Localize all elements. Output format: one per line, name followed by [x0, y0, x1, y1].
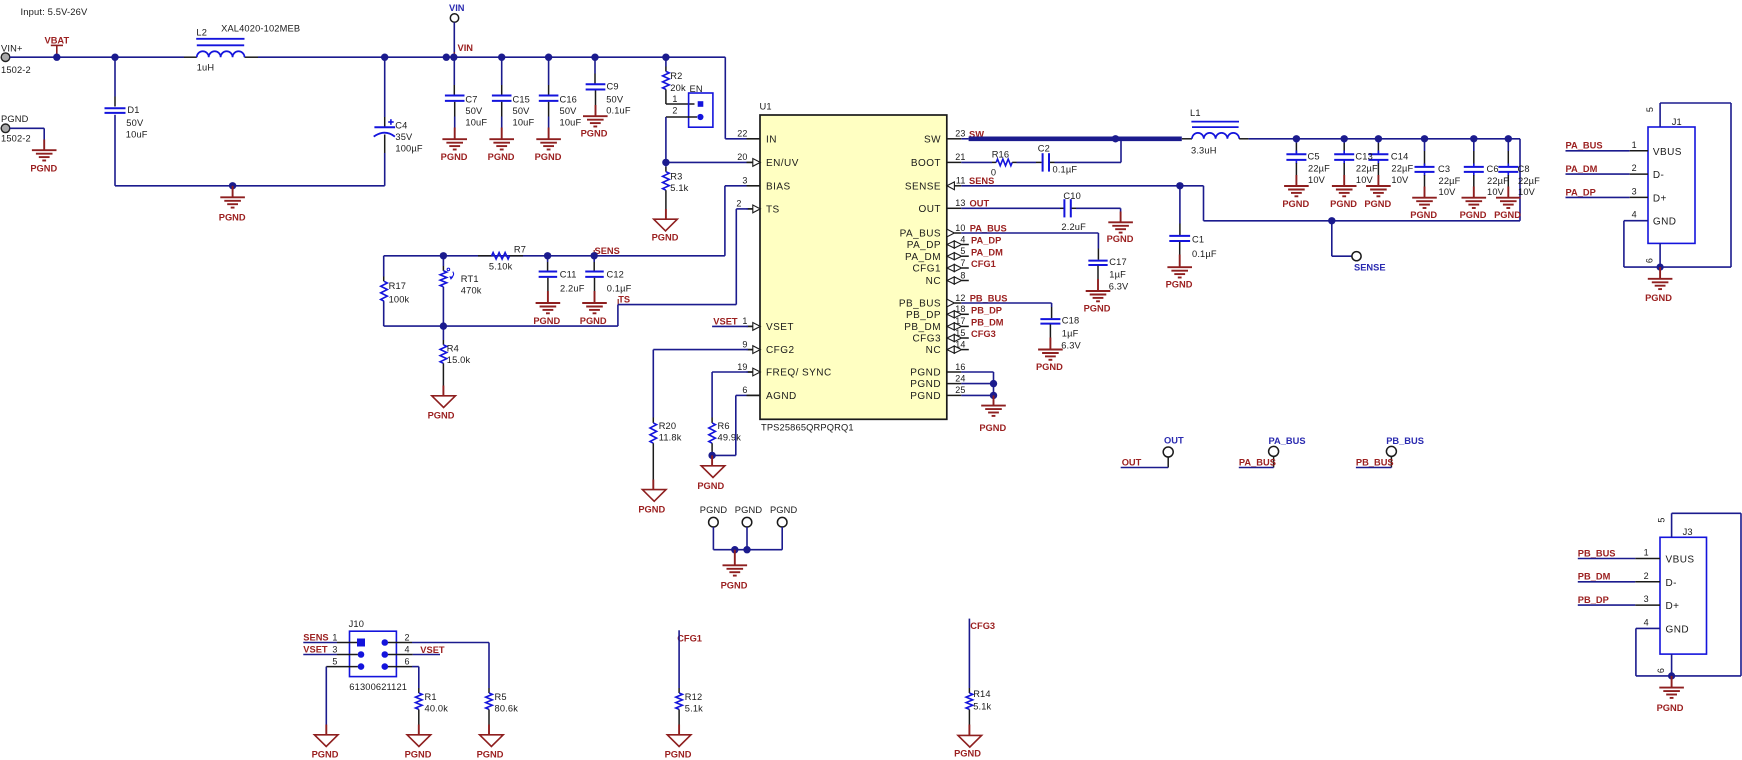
svg-text:6.3V: 6.3V	[1109, 281, 1129, 291]
junction J1 ground	[1657, 264, 1664, 271]
svg-text:CFG3: CFG3	[970, 621, 995, 631]
resistor R3 5.1k	[665, 162, 667, 166]
svg-text:4: 4	[1644, 617, 1649, 627]
svg-text:22µF: 22µF	[1518, 176, 1540, 186]
svg-text:RT1: RT1	[461, 274, 479, 284]
svg-text:J10: J10	[349, 619, 364, 629]
svg-text:6.3V: 6.3V	[1061, 340, 1081, 350]
svg-text:100k: 100k	[389, 295, 410, 305]
junction C5	[1293, 135, 1300, 142]
svg-text:VIN: VIN	[458, 43, 474, 53]
svg-text:PGND: PGND	[30, 164, 57, 174]
svg-text:C14: C14	[1391, 152, 1409, 162]
svg-text:R20: R20	[659, 421, 677, 431]
svg-text:PGND: PGND	[219, 213, 246, 223]
capacitor C3 22uF 10V	[1424, 139, 1426, 151]
svg-text:PGND: PGND	[580, 316, 607, 326]
wire VIN to U1 IN pin	[724, 57, 726, 139]
svg-text:PGND: PGND	[405, 750, 432, 760]
resistor R17 100k	[383, 256, 385, 277]
svg-text:PB_DM: PB_DM	[1578, 572, 1611, 582]
svg-text:PGND: PGND	[428, 411, 455, 421]
pin J10 round	[382, 663, 389, 670]
svg-text:TS: TS	[618, 295, 630, 305]
svg-text:CFG3: CFG3	[971, 329, 996, 339]
svg-text:61300621121: 61300621121	[349, 682, 407, 692]
ground PGND (input return)	[220, 196, 245, 198]
junction bottom return PGND	[229, 182, 236, 189]
resistor R16 0	[961, 161, 992, 163]
ground PGND (J3)	[1659, 687, 1684, 689]
svg-text:SENSE: SENSE	[1354, 263, 1386, 273]
svg-text:50V: 50V	[606, 95, 624, 105]
svg-text:R6: R6	[718, 421, 730, 431]
wire J10 pin2 to R5	[388, 642, 412, 644]
ground PGND (C10)	[1108, 221, 1133, 223]
ground PGND (C3)	[1412, 197, 1437, 199]
ground PGND (C18)	[1038, 349, 1063, 351]
svg-text:R12: R12	[685, 692, 703, 702]
wire PB_DM to J3 pin2	[1578, 581, 1636, 583]
svg-text:L2: L2	[196, 27, 207, 37]
capacitor C10 2.2uF	[961, 207, 1060, 209]
svg-text:PA_BUS: PA_BUS	[900, 229, 941, 240]
svg-text:PA_BUS: PA_BUS	[1566, 141, 1603, 151]
svg-text:R5: R5	[495, 692, 507, 702]
svg-text:R14: R14	[973, 689, 991, 699]
svg-text:CFG2: CFG2	[766, 345, 794, 356]
junction tp ground	[731, 546, 738, 553]
svg-text:5.1k: 5.1k	[670, 183, 688, 193]
svg-text:50V: 50V	[126, 118, 144, 128]
svg-text:10V: 10V	[1308, 175, 1326, 185]
svg-text:J3: J3	[1683, 527, 1693, 537]
svg-text:100µF: 100µF	[395, 144, 422, 154]
junction C13	[1341, 135, 1348, 142]
pin J10 round	[382, 639, 389, 646]
junction VIN rail	[443, 54, 450, 61]
svg-text:2: 2	[1632, 163, 1637, 173]
svg-text:0.1µF: 0.1µF	[1192, 249, 1217, 259]
svg-text:AGND: AGND	[766, 391, 797, 402]
svg-text:2.2uF: 2.2uF	[560, 283, 585, 293]
svg-text:PGND: PGND	[533, 316, 560, 326]
svg-text:1µF: 1µF	[1062, 329, 1079, 339]
svg-text:C2: C2	[1038, 143, 1050, 153]
svg-text:FREQ/ SYNC: FREQ/ SYNC	[766, 368, 832, 379]
svg-text:PA_DM: PA_DM	[971, 247, 1003, 257]
svg-text:13: 13	[955, 198, 965, 208]
svg-text:C17: C17	[1109, 257, 1127, 267]
thermistor RT1 470k	[442, 256, 444, 266]
svg-text:PGND: PGND	[910, 391, 941, 402]
capacitor C9 50V 0.1uF	[594, 57, 596, 73]
junction PGND pin24	[990, 380, 997, 387]
ground PGND (C14)	[1366, 185, 1391, 187]
svg-text:3: 3	[742, 176, 747, 186]
inductor L2 XAL4020-102MEB 1uH	[197, 51, 245, 57]
svg-text:10uF: 10uF	[513, 117, 535, 127]
junction C4	[381, 54, 388, 61]
svg-text:PB_DM: PB_DM	[904, 322, 941, 333]
svg-text:PGND: PGND	[979, 423, 1006, 433]
svg-text:5.1k: 5.1k	[973, 702, 991, 712]
ground PGND (R3)	[654, 219, 678, 231]
ground PGND (J1)	[1648, 278, 1673, 280]
svg-text:1: 1	[742, 316, 747, 326]
pin J10 round	[358, 651, 365, 658]
junction C15	[498, 54, 505, 61]
svg-text:PGND: PGND	[312, 750, 339, 760]
svg-text:C10: C10	[1063, 191, 1081, 201]
svg-text:35V: 35V	[395, 132, 413, 142]
svg-text:11: 11	[956, 176, 966, 186]
junction SENSE C1	[1176, 182, 1183, 189]
svg-text:R16: R16	[992, 150, 1010, 160]
svg-text:2.2uF: 2.2uF	[1061, 222, 1086, 232]
svg-text:22µF: 22µF	[1391, 164, 1413, 174]
svg-text:C11: C11	[560, 269, 577, 279]
svg-text:CFG1: CFG1	[677, 634, 702, 644]
svg-text:PGND: PGND	[477, 750, 504, 760]
svg-text:PB_BUS: PB_BUS	[1578, 548, 1616, 558]
svg-text:40.0k: 40.0k	[425, 703, 449, 713]
svg-text:PB_BUS: PB_BUS	[1356, 457, 1394, 467]
svg-text:19: 19	[737, 362, 747, 372]
svg-text:1502-2: 1502-2	[1, 134, 31, 144]
svg-text:4: 4	[1632, 210, 1637, 220]
svg-text:SENSE: SENSE	[905, 181, 941, 192]
svg-text:2: 2	[1644, 571, 1649, 581]
svg-text:1uH: 1uH	[197, 63, 215, 73]
svg-text:10: 10	[955, 223, 965, 233]
resistor R14 5.1k	[968, 688, 970, 693]
svg-text:PGND: PGND	[735, 505, 763, 515]
wire J3 pin4 GND	[1636, 627, 1660, 629]
ground PGND (C12)	[582, 302, 607, 304]
capacitor C17 1uF 6.3V	[961, 232, 1098, 234]
wire VBAT input rail	[10, 56, 184, 58]
svg-text:8: 8	[960, 270, 965, 280]
pin J10 round	[382, 651, 389, 658]
wire AGND	[747, 394, 761, 396]
svg-text:10V: 10V	[1487, 187, 1505, 197]
svg-text:CFG1: CFG1	[971, 259, 996, 269]
junction VBAT	[53, 54, 60, 61]
svg-text:4: 4	[960, 234, 965, 244]
ground PGND (U1 pins)	[981, 405, 1006, 407]
svg-text:PGND: PGND	[1460, 210, 1487, 220]
svg-text:TPS25865QRPQRQ1: TPS25865QRPQRQ1	[761, 423, 854, 433]
svg-text:R7: R7	[514, 245, 526, 255]
capacitor C14 22uF 10V	[1377, 139, 1379, 143]
svg-text:10uF: 10uF	[560, 117, 582, 127]
svg-text:C4: C4	[395, 120, 407, 130]
svg-text:PA_BUS: PA_BUS	[970, 223, 1007, 233]
svg-text:16: 16	[955, 362, 965, 372]
svg-text:VBAT: VBAT	[45, 36, 70, 46]
svg-text:NC: NC	[926, 345, 941, 356]
svg-text:1: 1	[1644, 548, 1649, 558]
svg-text:50V: 50V	[560, 106, 578, 116]
junction C3	[1421, 135, 1428, 142]
svg-text:PA_DM: PA_DM	[905, 252, 941, 263]
junction C16	[545, 54, 552, 61]
svg-text:VSET: VSET	[766, 322, 794, 333]
svg-text:PGND: PGND	[1364, 199, 1391, 209]
svg-text:2: 2	[672, 105, 677, 115]
svg-text:PB_DP: PB_DP	[1578, 595, 1609, 605]
svg-text:C16: C16	[560, 95, 578, 105]
resistor R7 5.10k	[478, 255, 492, 257]
svg-text:VSET: VSET	[713, 317, 738, 327]
svg-text:VBUS: VBUS	[1653, 147, 1682, 158]
svg-text:C3: C3	[1438, 164, 1450, 174]
resistor R4 15.0k	[442, 326, 444, 340]
svg-text:PGND: PGND	[1166, 280, 1193, 290]
svg-text:PGND: PGND	[1084, 303, 1111, 313]
svg-text:5: 5	[960, 246, 965, 256]
svg-text:OUT: OUT	[1122, 457, 1142, 467]
junction tp middle	[743, 546, 750, 553]
svg-text:2: 2	[405, 633, 410, 643]
svg-text:6: 6	[1656, 668, 1666, 673]
svg-text:L1: L1	[1190, 108, 1201, 118]
svg-text:PGND: PGND	[535, 152, 562, 162]
svg-text:PA_DP: PA_DP	[1566, 187, 1596, 197]
ground PGND (C17)	[1086, 290, 1111, 292]
pin 5 J3 shield	[1671, 513, 1673, 537]
svg-text:7: 7	[960, 258, 965, 268]
pin J10 round	[358, 663, 365, 670]
svg-text:0.1µF: 0.1µF	[1053, 165, 1078, 175]
capacitor C16 50V 10uF	[548, 57, 550, 85]
svg-text:VSET: VSET	[420, 645, 445, 655]
svg-text:C12: C12	[607, 269, 625, 279]
svg-text:SENS: SENS	[969, 176, 994, 186]
capacitor C13 22uF 10V	[1343, 139, 1345, 143]
wire SENSE pin to C1	[961, 185, 1180, 187]
svg-text:PGND: PGND	[910, 379, 941, 390]
svg-text:D+: D+	[1653, 193, 1667, 204]
junction J3 ground	[1668, 672, 1675, 679]
svg-text:PGND: PGND	[1282, 199, 1309, 209]
svg-text:PB_DM: PB_DM	[971, 317, 1004, 327]
wire PA_DM to J1 pin2	[1566, 173, 1630, 175]
ground PGND (test points)	[723, 564, 748, 566]
svg-text:IN: IN	[766, 134, 777, 145]
svg-text:3.3uH: 3.3uH	[1191, 146, 1217, 156]
svg-text:C18: C18	[1062, 316, 1080, 326]
wire FREQ/SYNC to R6	[712, 371, 748, 373]
wire J3 shield loop	[1672, 512, 1741, 514]
wire J10 pin5 to ground	[326, 666, 358, 668]
svg-text:XAL4020-102MEB: XAL4020-102MEB	[221, 24, 300, 34]
ground PGND (R4)	[432, 396, 456, 408]
resistor R20 11.8k	[652, 418, 654, 423]
svg-text:470k: 470k	[461, 285, 482, 295]
svg-text:VIN+: VIN+	[1, 44, 23, 54]
svg-text:50V: 50V	[465, 106, 483, 116]
capacitor C4 35V 100uF polarized	[384, 57, 386, 117]
junction R4 top	[440, 322, 447, 329]
junction C12 top	[591, 252, 598, 259]
svg-text:11.8k: 11.8k	[659, 433, 682, 443]
svg-text:R17: R17	[389, 281, 407, 291]
svg-text:6: 6	[742, 385, 747, 395]
capacitor C18 1uF 6.3V	[961, 302, 1051, 304]
junction SENSE test point branch	[1328, 217, 1335, 224]
svg-text:PGND: PGND	[697, 481, 724, 491]
svg-text:OUT: OUT	[970, 199, 990, 209]
wire EN pin1	[666, 103, 695, 105]
wire EN/UV to U1	[666, 161, 747, 163]
svg-text:SENS: SENS	[595, 246, 620, 256]
svg-text:5: 5	[1656, 518, 1666, 523]
svg-text:80.6k: 80.6k	[495, 703, 519, 713]
capacitor C8 22uF 10V	[1507, 139, 1509, 151]
svg-text:5: 5	[332, 657, 337, 667]
svg-text:C9: C9	[607, 81, 619, 91]
svg-text:22µF: 22µF	[1308, 164, 1330, 174]
ground PGND (C9)	[583, 115, 608, 117]
junction C8	[1505, 135, 1512, 142]
ground PGND (R5)	[480, 735, 504, 747]
ground PGND (C1)	[1167, 266, 1192, 268]
svg-text:PGND: PGND	[1657, 703, 1684, 713]
svg-text:PA_DP: PA_DP	[971, 236, 1001, 246]
svg-text:10uF: 10uF	[126, 129, 148, 139]
ground PGND (C5)	[1284, 185, 1309, 187]
capacitor C11 2.2uF	[547, 256, 549, 262]
wire J1 shield loop	[1660, 102, 1731, 104]
svg-text:1: 1	[332, 633, 337, 643]
svg-text:VBUS: VBUS	[1666, 555, 1695, 566]
wire SW thick	[961, 138, 968, 140]
wire bottom input return	[115, 185, 385, 187]
svg-text:PGND: PGND	[910, 368, 941, 379]
ground PGND (C16)	[536, 138, 561, 140]
ground PGND (R6)	[701, 466, 725, 478]
svg-text:PB_BUS: PB_BUS	[899, 299, 941, 310]
svg-text:PGND: PGND	[1494, 210, 1521, 220]
ground PGND (input pad)	[32, 149, 57, 151]
wire J10 pin6 to R1	[388, 666, 412, 668]
wire J1 pin4 GND	[1624, 220, 1648, 222]
svg-text:PB_BUS: PB_BUS	[970, 293, 1008, 303]
svg-text:R1: R1	[425, 692, 437, 702]
svg-text:GND: GND	[1666, 624, 1690, 635]
svg-text:5.10k: 5.10k	[489, 261, 513, 271]
svg-text:PGND: PGND	[721, 581, 748, 591]
svg-text:EN/UV: EN/UV	[766, 158, 799, 169]
svg-text:1: 1	[1632, 140, 1637, 150]
svg-text:VSET: VSET	[303, 645, 328, 655]
svg-text:C13: C13	[1355, 152, 1373, 162]
wire PGND test points	[712, 527, 714, 550]
svg-text:PGND: PGND	[488, 152, 515, 162]
ground PGND (C7)	[442, 138, 467, 140]
svg-text:D+: D+	[1666, 601, 1680, 612]
junction SW to C2	[1112, 135, 1119, 142]
svg-text:U1: U1	[760, 102, 772, 112]
svg-text:BIAS: BIAS	[766, 181, 791, 192]
svg-text:10uF: 10uF	[465, 117, 487, 127]
svg-text:PGND: PGND	[1, 114, 29, 124]
svg-text:D-: D-	[1666, 578, 1677, 589]
capacitor C2 0.1uF	[1036, 161, 1042, 163]
ground PGND (J10 pin5)	[314, 735, 338, 747]
capacitor D1 50V 10uF	[114, 57, 116, 96]
capacitor C12 0.1uF	[593, 256, 595, 262]
resistor R12 5.1k	[678, 688, 680, 693]
svg-text:PGND: PGND	[1410, 210, 1437, 220]
svg-text:5: 5	[1645, 107, 1655, 112]
ground PGND (C8)	[1496, 197, 1521, 199]
svg-text:10V: 10V	[1356, 175, 1374, 185]
ground PGND (C6)	[1462, 197, 1487, 199]
resistor R2 20k	[665, 57, 667, 66]
ground PGND (C15)	[489, 138, 514, 140]
svg-text:PGND: PGND	[638, 504, 665, 514]
svg-text:D-: D-	[1653, 170, 1664, 181]
junction EN/UV	[662, 159, 669, 166]
svg-text:TS: TS	[766, 205, 780, 216]
svg-text:PGND: PGND	[770, 505, 798, 515]
wire J10 pin4 VSET label	[388, 654, 413, 656]
svg-text:CFG3: CFG3	[913, 334, 941, 345]
resistor R1 40.0k	[418, 688, 420, 693]
svg-text:R3: R3	[670, 172, 682, 182]
svg-text:0.1uF: 0.1uF	[606, 106, 631, 116]
ground PGND (C13)	[1332, 185, 1357, 187]
svg-text:C1: C1	[1192, 235, 1204, 245]
wire PB_BUS to J3 pin1	[1578, 558, 1636, 560]
wire PA_BUS to J1 pin1	[1566, 150, 1630, 152]
svg-text:6: 6	[405, 657, 410, 667]
capacitor C6 22uF 10V	[1473, 139, 1475, 151]
wire PA_DP to J1 pin3	[1566, 196, 1630, 198]
svg-text:1502-2: 1502-2	[1, 65, 31, 75]
svg-text:3: 3	[1632, 186, 1637, 196]
ground PGND (R12)	[667, 735, 691, 747]
svg-text:3: 3	[1644, 594, 1649, 604]
svg-text:J1: J1	[1672, 117, 1682, 127]
svg-text:10V: 10V	[1439, 187, 1457, 197]
wire EN pin2	[666, 116, 697, 118]
svg-text:C6: C6	[1487, 164, 1499, 174]
svg-text:VIN: VIN	[449, 3, 465, 13]
svg-text:PGND: PGND	[700, 505, 728, 515]
svg-text:49.9k: 49.9k	[718, 433, 742, 443]
svg-text:D1: D1	[127, 105, 139, 115]
junction D1	[111, 54, 118, 61]
svg-text:22µF: 22µF	[1487, 176, 1509, 186]
svg-text:C15: C15	[513, 95, 531, 105]
svg-text:3: 3	[332, 645, 337, 655]
svg-text:20: 20	[737, 152, 747, 162]
svg-text:R2: R2	[670, 71, 682, 81]
pin 6 J1 shield	[1659, 243, 1661, 267]
svg-text:NC: NC	[926, 276, 941, 287]
svg-text:PGND: PGND	[954, 749, 981, 759]
svg-text:20k: 20k	[670, 83, 686, 93]
pin 1 J10 square	[357, 639, 365, 647]
svg-text:22: 22	[737, 129, 747, 139]
junction C14	[1375, 135, 1382, 142]
svg-text:BOOT: BOOT	[911, 158, 941, 169]
svg-text:PGND: PGND	[665, 750, 692, 760]
